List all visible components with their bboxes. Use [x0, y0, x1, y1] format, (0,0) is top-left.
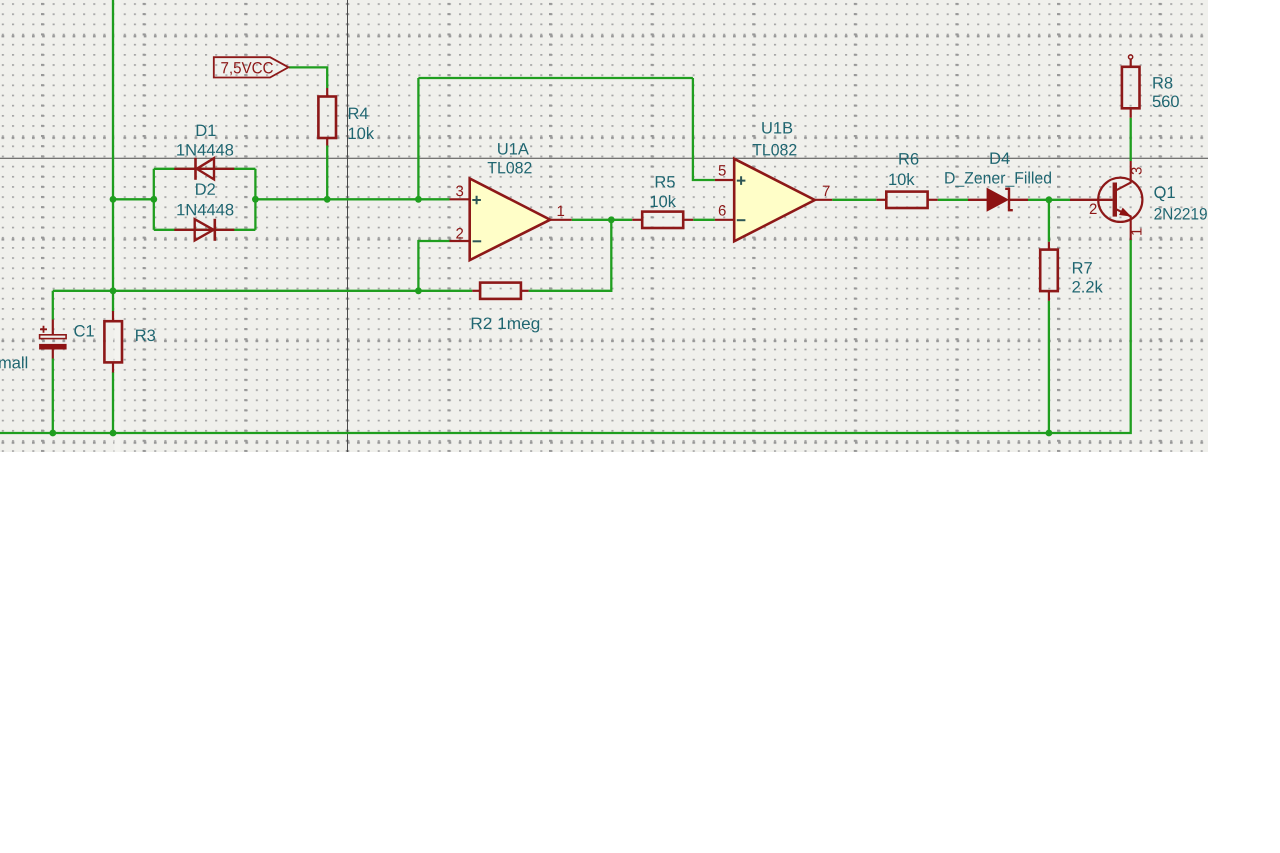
wire: D1 row horizontal — [154, 168, 256, 170]
wire: bottom rail — [0, 240, 1131, 433]
pin number 6 — [719, 205, 726, 216]
junction at bus / main horizontal — [110, 196, 117, 203]
junction diode loop left — [150, 196, 157, 203]
wire: R4 bottom to main horizontal — [326, 146, 328, 200]
junction C1 / bottom rail — [49, 430, 56, 437]
plus mark U1B — [737, 176, 746, 185]
wire: from 7,5VCC label to R4 top — [289, 67, 327, 88]
pin number 5 — [719, 165, 726, 175]
wire: R2 row left — [53, 290, 473, 292]
wire: U1B output to R6 — [832, 199, 876, 201]
wire: R2 right to output node vertical — [529, 220, 612, 291]
wire: R6 to D4 — [938, 199, 968, 201]
junction bus / R2 row — [110, 287, 117, 294]
resistor R3 — [104, 311, 155, 373]
resistor R7 2.2k — [1040, 242, 1103, 301]
pin number 2 (base) — [1090, 204, 1097, 214]
wire: U1A pin2 to R2 node — [418, 241, 449, 291]
erased grid band right of bus wire — [114, 0, 120, 452]
wire: junction down to R7 — [1048, 200, 1050, 242]
minus mark U1B — [737, 219, 746, 221]
cursor crosshair vertical — [347, 0, 349, 452]
transistor Q1 2N2219 — [1070, 161, 1207, 240]
op-amp U1A TL082 — [450, 143, 572, 260]
plus mark C1 — [40, 326, 47, 333]
resistor R6 10k — [876, 153, 937, 208]
schematic canvas background — [0, 0, 1208, 452]
collector stroke — [1115, 161, 1131, 191]
pin number 7 — [823, 186, 830, 196]
wire: C1 bottom to rail — [52, 359, 54, 434]
wire: feedback right vertical to U1B pin5 — [693, 78, 715, 180]
wire: U1A output to R5 — [572, 219, 633, 221]
junction pin2 / R2 row — [415, 287, 422, 294]
value text clipped at left edge — [0, 356, 27, 368]
junction R4 bottom — [324, 196, 331, 203]
pin number 3 (collector, rotated) — [1131, 167, 1142, 174]
diode D2 1N4448 (pointing right) — [174, 183, 234, 241]
wire: diode loop left vertical — [153, 169, 155, 230]
pin number 1 — [558, 206, 564, 216]
wire: R5 to U1B pin6 — [693, 219, 715, 221]
emitter stroke with arrow — [1115, 209, 1131, 240]
wire: diode loop right vertical — [254, 169, 256, 230]
junction U1A output node — [608, 216, 615, 223]
pin number 1 (emitter, rotated) — [1131, 228, 1141, 234]
capacitor C1 (polarized) — [0, 320, 94, 369]
resistor R4 — [318, 88, 374, 146]
cursor crosshair horizontal — [0, 157, 1208, 159]
wire: feedback top horizontal y=78 — [418, 77, 693, 79]
wire: R7 bottom to ground rail — [1048, 301, 1050, 433]
pin number 2 — [456, 228, 463, 238]
global label 7,5VCC — [214, 57, 289, 77]
wire: feedback left vertical into + node — [417, 78, 419, 199]
junction feedback / pin3 — [415, 196, 422, 203]
junction D4 / R7 / Q1 base — [1046, 196, 1053, 203]
wire: D2 row horizontal — [154, 229, 256, 231]
wire: D4 to junction and Q1 base — [1028, 199, 1070, 201]
resistor R2 1meg — [472, 283, 539, 333]
junction diode loop right — [252, 196, 259, 203]
junction R7 / bottom rail — [1046, 430, 1053, 437]
wire: main left vertical bus x=113 — [112, 0, 114, 312]
diode D1 1N4448 (pointing left) — [174, 125, 234, 180]
junction bus / bottom rail — [110, 430, 117, 437]
op-amp U1B TL082 — [715, 122, 832, 241]
minus mark U1A — [473, 240, 482, 242]
resistor R8 560 — [1122, 55, 1179, 118]
wire: R8 bottom to Q1 collector — [1130, 118, 1132, 161]
resistor R5 10k — [632, 176, 693, 228]
wire: y=200 from bus to diode loop — [113, 198, 154, 200]
zener diode D4 D_Zener_Filled — [945, 153, 1051, 211]
wire: C1 top connection — [52, 291, 54, 320]
pin number 3 — [456, 186, 463, 197]
plus mark U1A — [472, 196, 481, 205]
wire: main horizontal to U1A pin 3 — [255, 198, 449, 200]
